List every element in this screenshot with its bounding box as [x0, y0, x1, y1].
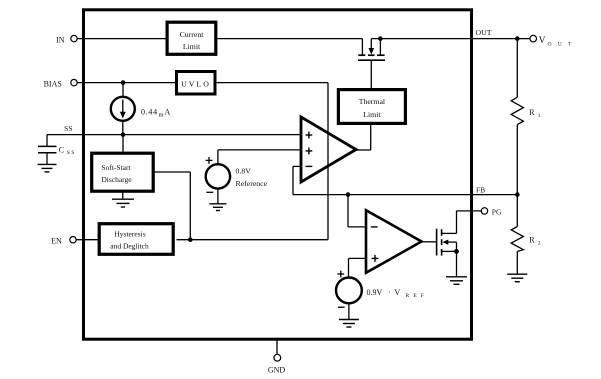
wire Thermal Limit to pass FET gate — [370, 60, 372, 89]
wire FB node to R2 — [516, 195, 518, 227]
wire GND pin stub — [276, 341, 278, 355]
node FB divider junction — [515, 192, 520, 197]
wire SSD output down to EN net — [155, 171, 191, 173]
block Hysteresis and Deglitch — [99, 224, 173, 255]
wire FB rail — [293, 194, 517, 196]
wire error amp output to Thermal Limit — [356, 149, 371, 151]
block Soft-Start Discharge — [92, 153, 154, 191]
svg-text:BIAS: BIAS — [44, 79, 62, 88]
svg-text:·: · — [388, 288, 391, 297]
wire FB to comparator inverting input — [347, 195, 349, 227]
svg-text:GND: GND — [268, 366, 286, 375]
svg-text:REF: REF — [406, 293, 429, 299]
svg-text:A: A — [165, 107, 171, 116]
wire SSD to ground — [122, 193, 124, 200]
reference source 0.9 VREF — [336, 278, 362, 304]
pin BIAS — [71, 79, 77, 85]
svg-text:Hysteresis: Hysteresis — [114, 230, 145, 239]
transistor Q2 PG open-drain NMOS — [437, 211, 457, 256]
svg-text:and Deglitch: and Deglitch — [110, 242, 149, 251]
svg-text:Soft-Start: Soft-Start — [101, 163, 131, 172]
current source I1 0.44uA — [111, 97, 135, 121]
svg-text:R: R — [529, 108, 535, 117]
svg-text:1: 1 — [538, 113, 541, 119]
block Current Limit — [167, 22, 216, 54]
svg-text:0.44: 0.44 — [141, 107, 158, 116]
minus sign — [338, 306, 345, 308]
node SS junction — [121, 132, 126, 137]
svg-text:C: C — [59, 145, 64, 154]
svg-text:0.9V: 0.9V — [367, 288, 383, 297]
svg-text:V: V — [394, 287, 401, 297]
svg-text:FB: FB — [476, 186, 485, 195]
svg-text:Limit: Limit — [363, 110, 381, 119]
node VOUT pin — [530, 35, 537, 42]
wire junction to current source — [122, 83, 124, 97]
wire R2 to ground — [516, 251, 518, 274]
svg-text:V: V — [539, 36, 546, 46]
wire pass FET source to VOUT — [371, 38, 530, 40]
node pass FET body junction — [378, 36, 383, 41]
op-amp U1 error amplifier — [301, 117, 356, 182]
wire to ground — [348, 303, 350, 319]
svg-text:m: m — [159, 112, 164, 119]
svg-text:R: R — [529, 236, 535, 245]
plus input 1 — [306, 132, 313, 139]
wire R1 to FB node — [516, 125, 518, 195]
wire UVLO net vertical — [327, 83, 329, 240]
plus sign — [337, 271, 344, 278]
wire BIAS pin to UVLO — [77, 82, 175, 84]
block Thermal Limit — [338, 90, 405, 124]
ground below CSS — [38, 164, 57, 172]
plus input — [372, 255, 379, 262]
reference source VREF 0.8V — [206, 150, 301, 204]
wire comparator non-inverting input to 0.9Vref — [349, 257, 367, 259]
plus sign of VREF — [206, 157, 213, 164]
ground below Soft-Start Discharge — [112, 199, 134, 207]
wire current source to SS net — [122, 121, 124, 135]
svg-text:Reference: Reference — [236, 179, 268, 188]
wire EN pin to Hysteresis block — [76, 239, 98, 241]
minus input — [371, 226, 378, 228]
minus input — [306, 165, 313, 167]
wire comparator output to Q2 gate — [422, 241, 437, 243]
wire error amp inverting input to FB net — [293, 165, 301, 167]
wire SS rail — [47, 134, 301, 136]
IC boundary box — [84, 10, 472, 339]
svg-text:IN: IN — [56, 35, 65, 44]
ground below Q2 — [446, 277, 467, 285]
op-amp U2 power-good comparator — [366, 210, 422, 273]
node EN net junction — [188, 237, 193, 242]
svg-text:Current: Current — [180, 30, 205, 39]
wire Q2 source to ground — [456, 251, 458, 276]
svg-text:SS: SS — [67, 150, 76, 156]
ground below R2 — [507, 274, 527, 282]
wire IN pin to Current Limit — [77, 38, 165, 40]
svg-text:PG: PG — [492, 208, 502, 217]
node FB to comparator junction — [346, 192, 351, 197]
pin IN — [71, 35, 77, 41]
wire Current Limit to pass FET drain — [218, 38, 363, 40]
pin GND — [274, 354, 281, 361]
wire Hysteresis output to UVLO net corner — [177, 239, 329, 241]
svg-text:OUT: OUT — [476, 28, 492, 37]
pin EN — [70, 237, 76, 243]
transistor Q1 pass PMOS — [358, 39, 385, 61]
node VOUT junction — [515, 36, 520, 41]
svg-text:UVLO: UVLO — [181, 79, 211, 88]
resistor R1 — [511, 97, 523, 124]
node BIAS junction — [121, 80, 126, 85]
svg-text:0.8V: 0.8V — [236, 166, 252, 175]
plus input 2 — [306, 148, 313, 155]
ground below VREF — [209, 204, 226, 211]
node Q2 source-body junction — [454, 249, 459, 254]
pin PG — [481, 208, 487, 214]
svg-text:Limit: Limit — [183, 42, 201, 51]
svg-text:SS: SS — [64, 124, 72, 133]
wire Q2 drain to PG pin — [457, 210, 482, 212]
svg-text:Thermal: Thermal — [359, 97, 386, 106]
resistor R2 — [511, 227, 523, 252]
svg-text:Discharge: Discharge — [101, 175, 132, 184]
wire UVLO output to EN net — [217, 82, 329, 84]
capacitor CSS — [38, 135, 57, 165]
minus sign of VREF — [206, 191, 213, 193]
svg-text:2: 2 — [538, 241, 541, 247]
wire VOUT down to R1 — [516, 39, 518, 98]
ground below 0.9 VREF — [339, 320, 359, 328]
wire SS junction down to Soft-Start Discharge — [122, 135, 124, 152]
svg-text:EN: EN — [51, 236, 62, 245]
block UVLO — [177, 72, 216, 95]
svg-text:OUT: OUT — [548, 41, 578, 47]
